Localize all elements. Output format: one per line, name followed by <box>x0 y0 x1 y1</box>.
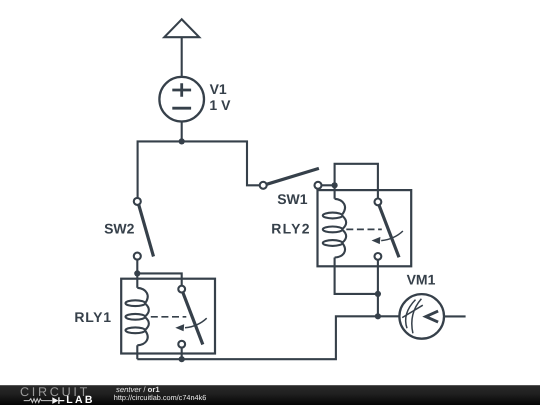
junction dot top rail <box>179 138 185 144</box>
RLY1 actuate arrow <box>185 318 207 328</box>
switch SW2 blade <box>139 205 154 257</box>
VM1 meter scale arcs <box>406 300 416 329</box>
terminal SW2 bottom <box>134 253 141 260</box>
VM1 V glyph <box>426 311 438 322</box>
wire node to RLY1 switch common <box>137 273 181 285</box>
svg-text:http://circuitlab.com/c74n4k6: http://circuitlab.com/c74n4k6 <box>114 393 206 402</box>
RLY2 dashed actuator link <box>346 228 382 230</box>
voltage source V1 <box>159 77 204 122</box>
RLY2 contact blade <box>379 205 399 257</box>
svg-text:RLY2: RLY2 <box>271 221 311 237</box>
relay RLY1 coil <box>137 288 147 303</box>
wire RLY1 switch bottom <box>181 348 183 360</box>
power flag triangle (VCC) <box>164 19 199 37</box>
voltmeter VM1 <box>399 294 444 339</box>
logo diode <box>52 397 58 404</box>
svg-text:V1: V1 <box>210 81 227 97</box>
wire SW2 to RLY1 node <box>136 260 138 274</box>
svg-text:SW2: SW2 <box>104 221 135 237</box>
junction dot RLY2 coil bottom <box>375 291 381 297</box>
terminal SW1 left <box>260 182 267 189</box>
wire RLY2 coil bottom <box>335 258 378 294</box>
wire RLY2 switch bottom <box>377 260 379 317</box>
svg-text:RLY1: RLY1 <box>74 309 111 325</box>
junction dot VM1 node <box>375 313 381 319</box>
wire triangle to V1 <box>181 37 183 77</box>
terminal RLY1 contact bottom <box>178 341 185 348</box>
junction dot SW1/RLY2 <box>332 182 338 188</box>
relay RLY2 coil <box>335 199 345 214</box>
terminal RLY2 contact bottom <box>375 253 382 260</box>
VM1 needle <box>402 305 423 317</box>
wire RLY2 coil top to switch common <box>335 164 378 199</box>
junction dot RLY1 bottom <box>179 356 185 362</box>
junction dot SW2/RLY1 <box>134 270 140 276</box>
svg-text:1 V: 1 V <box>209 97 231 113</box>
wire RLY1 bottom rail to VM1 <box>137 316 399 359</box>
logo resistor zigzag <box>24 399 52 403</box>
wire RLY1 coil bottom <box>136 345 138 359</box>
RLY2 actuate arrow <box>381 231 403 241</box>
terminal SW1 right <box>315 182 322 189</box>
V1 minus sign <box>172 107 191 110</box>
wire V1 to top rail <box>181 121 183 141</box>
svg-text:VM1: VM1 <box>407 272 436 288</box>
RLY1 contact blade <box>183 292 203 344</box>
wire node to RLY1 coil top <box>136 273 138 287</box>
wire SW1 to RLY2 node <box>322 184 335 186</box>
V1 plus sign <box>172 83 191 97</box>
switch SW1 blade <box>267 168 319 184</box>
relay RLY1 box <box>121 279 215 354</box>
terminal RLY1 contact top <box>178 286 185 293</box>
wire VM1 right stub <box>444 315 466 317</box>
svg-text:SW1: SW1 <box>277 191 308 207</box>
footer bar <box>0 385 540 405</box>
terminal SW2 top <box>134 198 141 205</box>
svg-text:LAB: LAB <box>66 394 94 405</box>
RLY1 dashed actuator link <box>151 316 187 318</box>
wire top rail left to SW2 <box>138 141 260 198</box>
relay RLY2 box <box>318 190 412 266</box>
terminal RLY2 contact top <box>375 199 382 206</box>
